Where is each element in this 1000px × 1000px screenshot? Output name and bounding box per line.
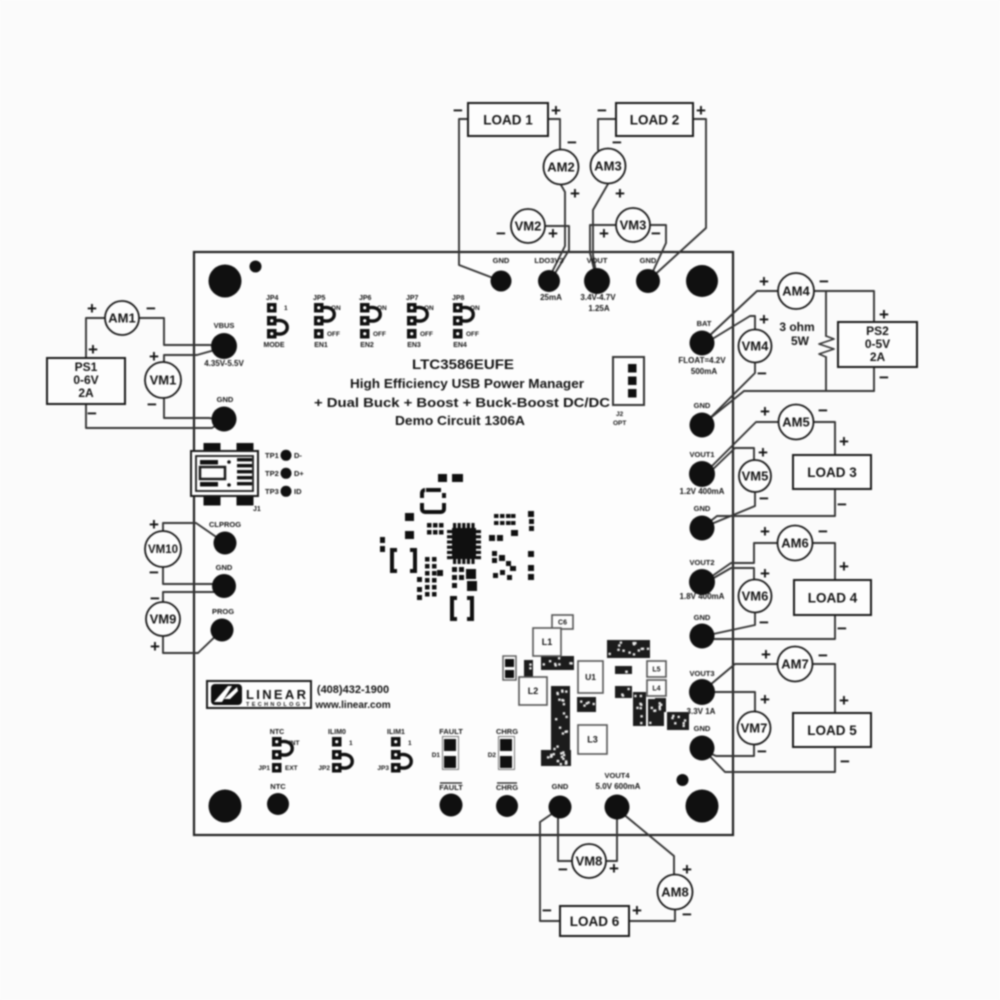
svg-text:GND: GND xyxy=(694,613,711,622)
svg-text:EN3: EN3 xyxy=(407,342,421,349)
svg-text:5.0V 600mA: 5.0V 600mA xyxy=(596,782,641,791)
svg-text:ILIM1: ILIM1 xyxy=(387,729,405,736)
svg-text:VM2: VM2 xyxy=(515,219,542,234)
svg-text:+: + xyxy=(759,310,769,329)
svg-text:VOUT: VOUT xyxy=(587,256,608,265)
svg-text:AM6: AM6 xyxy=(781,536,808,551)
svg-text:LOAD 2: LOAD 2 xyxy=(630,113,680,128)
svg-text:AM1: AM1 xyxy=(108,311,135,326)
svg-text:FAULT: FAULT xyxy=(439,727,463,736)
svg-text:GND: GND xyxy=(552,782,569,791)
svg-text:J1: J1 xyxy=(253,506,261,513)
svg-text:PS2: PS2 xyxy=(866,324,889,338)
svg-text:Demo Circuit 1306A: Demo Circuit 1306A xyxy=(395,414,525,428)
svg-text:+: + xyxy=(149,515,159,534)
svg-text:ON: ON xyxy=(377,305,387,312)
svg-text:CHRG: CHRG xyxy=(496,727,518,736)
svg-text:www.linear.com: www.linear.com xyxy=(314,700,390,711)
svg-text:JP3: JP3 xyxy=(377,765,389,772)
svg-text:−: − xyxy=(818,401,828,420)
svg-text:LOAD 6: LOAD 6 xyxy=(570,914,620,929)
svg-text:GND: GND xyxy=(493,256,510,265)
svg-text:−: − xyxy=(819,272,829,291)
svg-text:LOAD 1: LOAD 1 xyxy=(483,113,533,128)
svg-text:LOAD 4: LOAD 4 xyxy=(808,591,858,606)
svg-text:VOUT2: VOUT2 xyxy=(689,558,714,567)
svg-text:0-6V: 0-6V xyxy=(73,373,98,387)
svg-text:−: − xyxy=(682,905,692,924)
svg-text:VOUT4: VOUT4 xyxy=(604,771,630,780)
svg-text:GND: GND xyxy=(640,256,657,265)
svg-text:FAULT: FAULT xyxy=(439,783,463,792)
svg-text:MODE: MODE xyxy=(264,342,285,349)
svg-text:+ Dual Buck + Boost + Buck-Boo: + Dual Buck + Boost + Buck-Boost DC/DC xyxy=(314,396,610,410)
svg-text:JP7: JP7 xyxy=(406,295,419,302)
svg-text:+: + xyxy=(551,101,561,120)
svg-text:TP3: TP3 xyxy=(265,487,279,496)
svg-text:EN4: EN4 xyxy=(453,342,467,349)
svg-text:+: + xyxy=(149,347,159,366)
svg-text:OFF: OFF xyxy=(327,331,340,338)
svg-text:L5: L5 xyxy=(652,667,660,674)
svg-text:+: + xyxy=(150,637,160,656)
svg-text:CHRG: CHRG xyxy=(496,783,518,792)
svg-text:+: + xyxy=(760,690,770,709)
svg-text:C6: C6 xyxy=(558,620,567,627)
svg-text:−: − xyxy=(149,563,159,582)
svg-text:GND: GND xyxy=(694,401,711,410)
svg-text:VM8: VM8 xyxy=(576,854,603,869)
svg-text:L2: L2 xyxy=(528,686,539,696)
svg-text:+: + xyxy=(760,564,770,583)
svg-text:OPT: OPT xyxy=(613,420,626,427)
svg-text:JP5: JP5 xyxy=(313,295,326,302)
svg-text:EXT: EXT xyxy=(285,765,298,772)
svg-text:ILIM0: ILIM0 xyxy=(328,729,346,736)
svg-text:VM4: VM4 xyxy=(742,339,770,354)
svg-text:TP2: TP2 xyxy=(265,469,279,478)
svg-text:INT: INT xyxy=(289,740,300,747)
svg-text:GND: GND xyxy=(694,504,711,513)
svg-text:+: + xyxy=(759,272,769,291)
svg-text:JP8: JP8 xyxy=(452,295,465,302)
svg-text:BAT: BAT xyxy=(697,319,712,328)
svg-text:5W: 5W xyxy=(791,334,810,348)
svg-text:(408)432-1900: (408)432-1900 xyxy=(317,684,389,696)
svg-text:−: − xyxy=(567,133,577,152)
svg-text:−: − xyxy=(146,299,156,318)
svg-text:1.2V 400mA: 1.2V 400mA xyxy=(680,487,725,496)
svg-text:GND: GND xyxy=(694,724,711,733)
svg-text:TP1: TP1 xyxy=(265,451,279,460)
svg-text:FLOAT=4.2V: FLOAT=4.2V xyxy=(678,356,726,365)
svg-text:OFF: OFF xyxy=(373,331,386,338)
svg-text:+: + xyxy=(548,224,558,243)
svg-text:GND: GND xyxy=(217,395,234,404)
svg-text:2A: 2A xyxy=(870,350,886,364)
svg-text:−: − xyxy=(612,133,622,152)
svg-text:VM1: VM1 xyxy=(150,373,177,388)
svg-text:2A: 2A xyxy=(78,386,94,400)
svg-text:−: − xyxy=(150,589,160,608)
svg-text:+: + xyxy=(632,901,642,920)
svg-text:+: + xyxy=(609,859,619,878)
svg-text:−: − xyxy=(759,613,769,632)
svg-text:+: + xyxy=(696,101,706,120)
svg-text:L3: L3 xyxy=(587,735,598,745)
svg-text:−: − xyxy=(496,224,506,243)
svg-text:−: − xyxy=(87,404,97,423)
svg-text:J2: J2 xyxy=(616,411,624,418)
svg-text:VM9: VM9 xyxy=(150,612,177,627)
svg-text:25mA: 25mA xyxy=(540,293,562,302)
svg-text:OFF: OFF xyxy=(466,331,479,338)
svg-text:VM10: VM10 xyxy=(148,544,178,556)
svg-text:EN1: EN1 xyxy=(314,342,328,349)
svg-text:+: + xyxy=(599,224,609,243)
svg-text:1: 1 xyxy=(284,305,288,312)
svg-text:JP6: JP6 xyxy=(359,295,372,302)
svg-text:1.25A: 1.25A xyxy=(588,304,610,313)
svg-text:ON: ON xyxy=(331,305,341,312)
svg-text:High Efficiency USB Power Mana: High Efficiency USB Power Manager xyxy=(350,377,584,391)
svg-text:AM8: AM8 xyxy=(661,885,688,900)
svg-text:LOAD 3: LOAD 3 xyxy=(807,465,857,480)
svg-text:−: − xyxy=(597,101,607,120)
svg-text:NTC: NTC xyxy=(270,782,286,791)
svg-text:VM5: VM5 xyxy=(742,469,769,484)
svg-text:0-5V: 0-5V xyxy=(865,337,890,351)
svg-text:−: − xyxy=(757,742,767,761)
svg-text:JP2: JP2 xyxy=(318,765,330,772)
svg-text:D2: D2 xyxy=(488,752,497,759)
svg-text:ON: ON xyxy=(424,305,434,312)
svg-text:+: + xyxy=(87,299,97,318)
svg-text:1.8V 400mA: 1.8V 400mA xyxy=(680,592,725,601)
svg-text:−: − xyxy=(837,495,847,514)
svg-text:ON: ON xyxy=(470,305,480,312)
svg-text:+: + xyxy=(879,305,889,324)
svg-text:U1: U1 xyxy=(585,672,596,682)
svg-text:−: − xyxy=(759,489,769,508)
svg-text:VOUT1: VOUT1 xyxy=(689,450,714,459)
svg-text:D-: D- xyxy=(294,451,302,460)
svg-text:LOAD 5: LOAD 5 xyxy=(807,723,857,738)
svg-text:PS1: PS1 xyxy=(75,360,98,374)
svg-text:LDO3V3: LDO3V3 xyxy=(534,256,563,265)
svg-text:VM3: VM3 xyxy=(620,218,647,233)
svg-text:1: 1 xyxy=(349,740,353,747)
svg-text:OFF: OFF xyxy=(420,331,433,338)
svg-text:−: − xyxy=(651,224,661,243)
svg-text:NTC: NTC xyxy=(270,729,284,736)
svg-text:−: − xyxy=(879,368,889,387)
svg-text:+: + xyxy=(570,184,580,203)
svg-text:−: − xyxy=(453,101,463,120)
svg-text:EN2: EN2 xyxy=(360,342,374,349)
svg-text:4.35V-5.5V: 4.35V-5.5V xyxy=(204,359,244,368)
svg-text:−: − xyxy=(147,395,157,414)
svg-text:3.4V-4.7V: 3.4V-4.7V xyxy=(580,293,616,302)
svg-text:500mA: 500mA xyxy=(691,367,717,376)
svg-text:+: + xyxy=(758,443,768,462)
svg-text:+: + xyxy=(682,860,692,879)
svg-text:JP4: JP4 xyxy=(266,295,279,302)
svg-text:+: + xyxy=(88,340,98,359)
svg-text:L1: L1 xyxy=(542,637,553,647)
svg-text:−: − xyxy=(757,364,767,383)
svg-text:−: − xyxy=(542,901,552,920)
svg-text:AM2: AM2 xyxy=(547,160,574,175)
svg-text:AM3: AM3 xyxy=(594,159,621,174)
svg-text:TECHNOLOGY: TECHNOLOGY xyxy=(246,702,306,708)
svg-text:VM7: VM7 xyxy=(741,721,768,736)
svg-text:CLPROG: CLPROG xyxy=(209,520,241,529)
svg-text:AM4: AM4 xyxy=(782,284,810,299)
svg-text:VOUT3: VOUT3 xyxy=(689,669,714,678)
svg-text:VM6: VM6 xyxy=(742,589,769,604)
svg-text:+: + xyxy=(839,557,849,576)
svg-text:JP1: JP1 xyxy=(258,765,270,772)
svg-text:D1: D1 xyxy=(432,752,441,759)
svg-text:3.3V 1A: 3.3V 1A xyxy=(687,707,716,716)
svg-text:L4: L4 xyxy=(652,686,660,693)
svg-text:−: − xyxy=(818,522,828,541)
svg-text:VBUS: VBUS xyxy=(214,321,235,330)
svg-text:PROG: PROG xyxy=(212,607,234,616)
svg-text:−: − xyxy=(837,619,847,638)
svg-text:ID: ID xyxy=(294,487,302,496)
svg-text:LTC3586EUFE: LTC3586EUFE xyxy=(412,356,514,372)
svg-text:+: + xyxy=(615,184,625,203)
svg-text:3 ohm: 3 ohm xyxy=(779,320,814,334)
svg-text:GND: GND xyxy=(216,563,233,572)
svg-text:+: + xyxy=(839,691,849,710)
svg-text:AM5: AM5 xyxy=(782,415,809,430)
svg-text:+: + xyxy=(760,522,770,541)
svg-text:+: + xyxy=(760,402,770,421)
svg-text:+: + xyxy=(761,645,771,664)
svg-text:+: + xyxy=(839,432,849,451)
svg-text:−: − xyxy=(840,752,850,771)
svg-text:−: − xyxy=(558,860,568,879)
svg-text:1: 1 xyxy=(408,740,412,747)
svg-text:D+: D+ xyxy=(294,469,304,478)
svg-text:−: − xyxy=(818,646,828,665)
svg-text:AM7: AM7 xyxy=(781,657,808,672)
